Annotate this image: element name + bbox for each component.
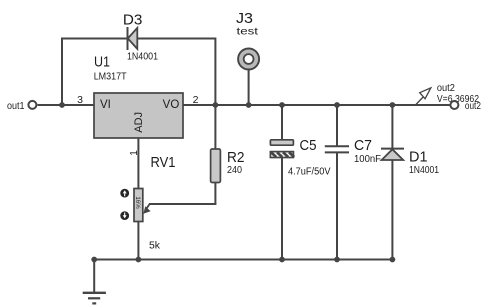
diode D1 [381,105,404,260]
node: junction main rail / top loop left [59,102,65,108]
wire: top loop horizontal right of D3 [137,38,216,40]
wire: ADJ pin down to RV1 [137,138,139,189]
svg-text:RV1: RV1 [151,154,176,171]
svg-text:240: 240 [227,165,242,176]
svg-text:100nF: 100nF [354,154,381,165]
node: junction ground rail / C7 [334,257,340,263]
capacitor C7 [325,105,349,260]
probe out2 arrow [415,88,431,106]
RV1 down button [120,211,129,220]
svg-text:D1: D1 [409,148,428,165]
diode D3 [128,27,138,50]
svg-text:2: 2 [193,94,199,106]
wire: RV1 bottom to ground rail [137,222,139,260]
wire: main output rail [38,104,450,106]
svg-text:16%: 16% [134,196,141,209]
connector J3 [238,49,259,70]
capacitor C5 [270,105,294,260]
regulator U1 (LM317T) body [94,93,183,138]
terminal out1 [28,101,36,109]
svg-text:LM317T: LM317T [94,72,127,83]
node: junction main rail / C7 [334,102,340,108]
svg-text:R2: R2 [227,149,245,166]
node: junction ground rail / C5 [279,257,285,263]
svg-text:ADJ: ADJ [133,112,145,133]
wire: ground stem [93,260,95,293]
svg-text:test: test [237,27,259,38]
node: junction ground rail / RV1 [136,257,142,263]
svg-text:J3: J3 [236,10,253,27]
RV1 up button [120,189,129,198]
wire: wiper diagonal with arrow into pot [143,204,150,214]
wire: top loop horizontal left of D3 [61,38,128,40]
potentiometer RV1 body [134,189,143,222]
svg-text:D3: D3 [123,12,143,29]
svg-text:out2: out2 [465,101,481,112]
wire: top loop left vertical [61,38,63,106]
ground [83,293,106,304]
node: junction main rail / C5 [279,102,285,108]
svg-text:VO: VO [163,99,180,111]
node: junction main rail / R2 and loop right [213,102,219,108]
svg-text:out2: out2 [437,83,455,94]
node: junction ground rail / D1 [390,257,396,263]
wire: bottom ground rail [94,259,392,261]
svg-text:4.7uF/50V: 4.7uF/50V [288,167,331,178]
terminal out2 [450,101,458,109]
svg-text:3: 3 [77,94,83,106]
svg-text:1N4001: 1N4001 [409,165,439,176]
node: junction ground rail / ground stem [91,257,97,263]
svg-text:5k: 5k [149,240,161,251]
node: junction main rail / D1 [390,102,396,108]
svg-text:C7: C7 [354,137,372,154]
svg-text:VI: VI [100,99,111,111]
wire: top loop right vertical [214,38,216,106]
svg-text:U1: U1 [94,54,110,71]
svg-text:C5: C5 [300,137,317,154]
resistor R2 [211,105,221,204]
svg-text:1N4001: 1N4001 [127,51,158,62]
wire: J3 down to rail [248,69,250,105]
node: junction main rail / J3 [246,102,252,108]
wire: R2 bottom to RV1 wiper [149,203,216,205]
svg-text:out1: out1 [7,101,25,112]
